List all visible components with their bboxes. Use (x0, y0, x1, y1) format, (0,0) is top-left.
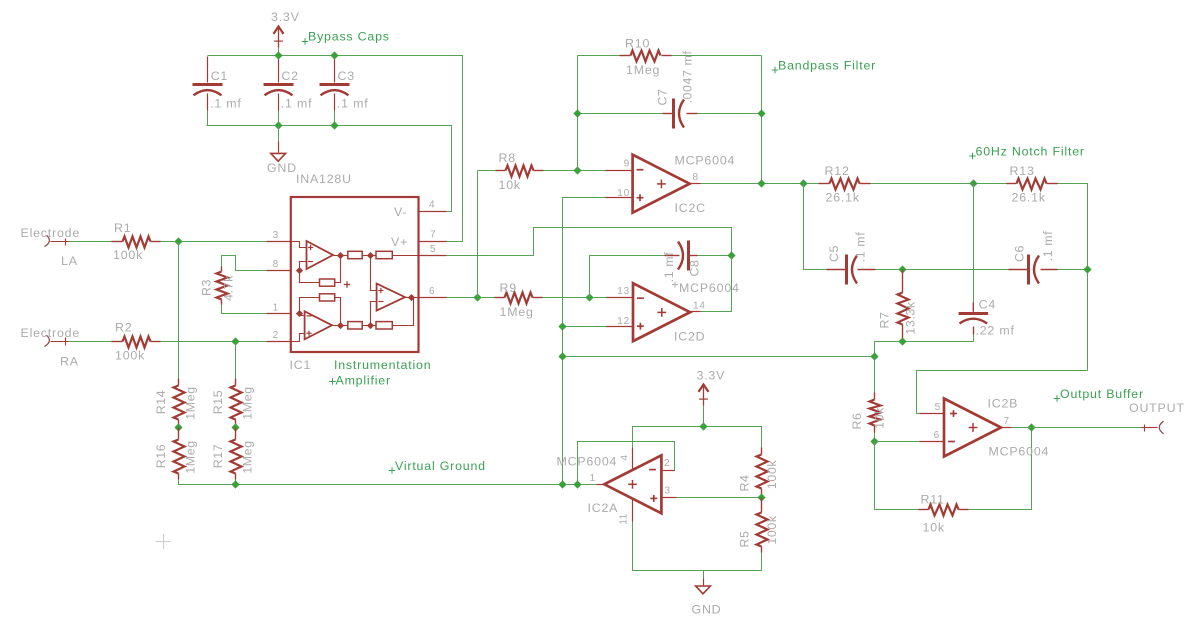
wire (698, 113, 762, 115)
wire (178, 242, 180, 379)
junction (573, 109, 581, 117)
label 60Hz Notch Filter (969, 145, 1085, 160)
resistor R11 (919, 493, 969, 535)
svg-text:OUTPUT: OUTPUT (1129, 401, 1185, 415)
wire IC2A power rail top (633, 427, 762, 448)
wire IC1 internal to out- (371, 302, 377, 326)
svg-text:5: 5 (935, 402, 941, 413)
wire (161, 241, 267, 243)
wire IC1 internal pin2 to B+ (292, 334, 305, 342)
ground GND (IC2A) (692, 571, 722, 617)
svg-text:C5: C5 (827, 245, 841, 262)
junction (573, 480, 581, 488)
wire (69, 241, 112, 243)
op-amp IC1 input buffer B (305, 311, 332, 339)
wire pin5 net (447, 228, 732, 256)
svg-text:MCP6004: MCP6004 (557, 455, 618, 469)
wire (672, 55, 762, 57)
wire (1058, 184, 1088, 371)
node pin8 junction (296, 267, 303, 274)
power 3.3V supply (IC2A) (697, 369, 726, 427)
junction (473, 293, 481, 301)
wire IC1 internal Rg-bottom link (335, 298, 341, 326)
junction (757, 493, 765, 501)
junction (969, 179, 977, 187)
electrode RA terminal (21, 326, 81, 369)
svg-text:R10: R10 (625, 37, 650, 51)
wire (478, 170, 496, 172)
resistor R9 (495, 281, 543, 319)
resistor R1 (112, 221, 161, 262)
svg-text:V+: V+ (391, 235, 408, 249)
capacitor C5 (827, 232, 876, 285)
pin 6 IC1 (419, 286, 447, 298)
wire C7 row (578, 113, 663, 115)
label Bandpass Filter (772, 59, 876, 74)
svg-text:10k: 10k (923, 521, 945, 535)
junction (799, 179, 807, 187)
svg-text:R4: R4 (738, 474, 752, 491)
wire IC2D output feedback (701, 256, 732, 312)
svg-text:C8: C8 (688, 259, 702, 276)
resistor IC1 internal bottom R2 (376, 322, 392, 329)
svg-text:1Meg: 1Meg (626, 63, 660, 77)
wire C8 row (590, 256, 665, 298)
wire pin12 to virtual ground rail (563, 326, 607, 328)
svg-text:26.1k: 26.1k (826, 191, 860, 205)
svg-text:R13: R13 (1010, 164, 1035, 178)
svg-text:1Meg: 1Meg (241, 386, 255, 419)
wire (969, 428, 1032, 510)
svg-text:10k: 10k (873, 407, 887, 429)
svg-text:IC2C: IC2C (675, 201, 706, 215)
svg-text:100k: 100k (765, 460, 779, 489)
junction (757, 109, 765, 117)
resistor R7 (878, 270, 918, 342)
terminal OUTPUT (1129, 401, 1185, 434)
svg-text:C2: C2 (281, 69, 298, 83)
junction (558, 322, 566, 330)
wire (179, 480, 597, 485)
node pin1 junction (296, 310, 303, 317)
pin 11 IC2A power (619, 499, 633, 525)
junction (274, 121, 282, 129)
pin 7 IC1 V+ (391, 230, 447, 250)
resistor R5 (738, 498, 780, 553)
power 3.3V supply (bypass) (271, 10, 300, 48)
svg-text:Bandpass Filter: Bandpass Filter (778, 59, 876, 73)
svg-text:R3: R3 (200, 279, 214, 296)
resistor IC1 internal bottom R1 (348, 322, 362, 329)
pin 4 IC2A power (620, 448, 633, 470)
svg-text:Electrode: Electrode (21, 326, 81, 340)
node bottom row junction a (337, 322, 344, 329)
wire R10 feedback right drop (761, 56, 763, 184)
cursor crosshair (156, 534, 171, 549)
svg-text:V-: V- (394, 205, 407, 219)
svg-text:.1 mf: .1 mf (281, 97, 313, 111)
node top row junction a (337, 252, 344, 259)
svg-text:13: 13 (617, 286, 630, 297)
label Output Buffer (1054, 387, 1144, 402)
svg-text:5: 5 (430, 244, 436, 255)
pin 2 IC2A (662, 458, 675, 471)
junction (558, 480, 566, 488)
svg-text:RA: RA (60, 355, 79, 369)
wire IC1 internal Rg-top link (335, 256, 341, 283)
svg-text:.1 mf: .1 mf (210, 97, 242, 111)
junction node RA (231, 337, 239, 345)
resistor R16 (154, 428, 198, 480)
svg-text:.22 mf: .22 mf (976, 324, 1015, 338)
pin 9 IC2C (606, 159, 633, 171)
resistor IC1 internal top R2 (376, 251, 392, 258)
node bottom row junction b (367, 322, 374, 329)
pin 2 IC1 (267, 330, 292, 342)
svg-text:9: 9 (624, 159, 630, 170)
pin 14 IC2D output (691, 301, 706, 312)
svg-text:3.3V: 3.3V (697, 369, 726, 383)
svg-text:R6: R6 (850, 412, 864, 429)
wire 3.3V top rail (208, 56, 463, 242)
svg-text:6: 6 (934, 430, 940, 441)
wire IC2A power rail bottom (633, 522, 762, 571)
resistor R15 (211, 379, 255, 428)
svg-text:C3: C3 (338, 69, 355, 83)
svg-text:C1: C1 (211, 69, 228, 83)
node top row junction b (367, 252, 374, 259)
wire (222, 305, 267, 314)
wire notch output to IC2B pin5 (917, 371, 1088, 414)
capacitor C1 (193, 57, 242, 126)
capacitor C7 (656, 50, 698, 128)
wire (69, 341, 112, 343)
pin 6 IC2B (920, 430, 945, 442)
svg-text:R7: R7 (878, 311, 892, 328)
wire IC1 internal pin1 node (300, 298, 320, 316)
junction (870, 437, 878, 445)
junction (558, 352, 566, 360)
svg-text:3: 3 (273, 230, 279, 241)
svg-text:C7: C7 (656, 88, 670, 105)
op-amp U IC2A MCP6004 (557, 455, 662, 516)
wire (161, 341, 267, 343)
svg-text:IC2B: IC2B (988, 397, 1019, 411)
resistor R4 (738, 448, 780, 498)
junction (727, 251, 735, 259)
svg-text:Output Buffer: Output Buffer (1060, 387, 1144, 401)
pin 8 IC1 (267, 259, 292, 271)
junction (330, 51, 338, 59)
svg-text:11: 11 (619, 513, 630, 524)
svg-text:.1 mf: .1 mf (1041, 231, 1055, 262)
junction node LA (174, 237, 182, 245)
wire C5 row left drop (804, 184, 827, 270)
svg-text:1Meg: 1Meg (241, 440, 255, 473)
wire GND bottom rail (207, 126, 452, 212)
svg-text:13.3k: 13.3k (904, 301, 918, 335)
junction (898, 337, 906, 345)
svg-text:R16: R16 (154, 444, 168, 469)
capacitor C6 (1009, 231, 1058, 285)
svg-text:IC2A: IC2A (588, 501, 619, 515)
svg-text:1Meg: 1Meg (184, 386, 198, 419)
svg-text:C4: C4 (979, 298, 996, 312)
svg-text:Electrode: Electrode (21, 226, 81, 240)
wire IC1 internal top row (334, 255, 419, 257)
svg-text:6: 6 (429, 286, 435, 297)
wire IC1 internal to out+ (371, 256, 377, 291)
svg-text:R9: R9 (500, 281, 517, 295)
pin 12 IC2D (607, 316, 634, 327)
pin 5 IC2B (920, 402, 945, 414)
ground GND (bypass) (267, 126, 297, 176)
op-amp U IC1 INA128U box (291, 197, 419, 352)
wire IC1 internal pin3 to A+ (292, 242, 307, 248)
svg-text:.1 mf: .1 mf (662, 252, 676, 283)
resistor R14 (154, 379, 198, 428)
svg-text:10k: 10k (499, 178, 521, 192)
junction (1027, 423, 1035, 431)
junction (231, 480, 239, 488)
svg-text:14: 14 (693, 301, 706, 312)
wire pin10 to virtual ground rail (563, 198, 606, 485)
wire (544, 170, 606, 172)
svg-text:10: 10 (617, 188, 630, 199)
pin 3 IC1 (267, 230, 292, 242)
svg-text:100k: 100k (115, 349, 145, 363)
label Virtual Ground (389, 459, 486, 474)
resistor R12 (819, 164, 871, 205)
label Bypass Caps (302, 30, 390, 45)
pin 8 IC2C output (690, 172, 701, 184)
resistor R8 (496, 151, 544, 192)
svg-text:2: 2 (273, 330, 279, 341)
wire (1058, 269, 1088, 271)
junction (231, 423, 239, 431)
svg-text:C6: C6 (1013, 245, 1027, 262)
electrode LA terminal (21, 226, 81, 268)
resistor IC1 internal Rg top (320, 279, 335, 286)
svg-text:4: 4 (620, 454, 631, 460)
svg-text:MCP6004: MCP6004 (989, 445, 1050, 459)
wire (235, 480, 237, 485)
junction (898, 265, 906, 273)
svg-text:7: 7 (1004, 416, 1010, 427)
svg-text:Virtual Ground: Virtual Ground (395, 459, 486, 473)
svg-text:Instrumentation: Instrumentation (334, 358, 431, 372)
resistor R3 (200, 267, 236, 305)
svg-text:60Hz Notch Filter: 60Hz Notch Filter (976, 145, 1085, 159)
op-amp IC1 output stage (377, 284, 405, 311)
pin 5 IC1 (419, 244, 447, 256)
svg-text:4.7k: 4.7k (222, 275, 236, 301)
svg-text:R14: R14 (154, 390, 168, 415)
op-amp IC1 input buffer A (307, 241, 334, 269)
wire R11 feedback loop (875, 442, 919, 510)
op-amp U IC2B MCP6004 (944, 397, 1049, 459)
svg-text:2: 2 (664, 458, 670, 469)
svg-text:R5: R5 (738, 530, 752, 547)
resistor IC1 internal top R1 (348, 251, 362, 258)
wire R10 feedback left drop (577, 56, 579, 171)
wire output net (1012, 427, 1142, 429)
svg-text:1Meg: 1Meg (500, 305, 534, 319)
wire (222, 256, 267, 271)
svg-text:Amplifier: Amplifier (336, 374, 391, 388)
svg-text:R2: R2 (115, 321, 132, 335)
wire (876, 269, 1009, 271)
resistor R2 (112, 321, 161, 363)
resistor R10 (620, 37, 672, 78)
wire IC2A pin2 feedback loop (578, 442, 675, 485)
svg-text:.1 mf: .1 mf (337, 97, 369, 111)
capacitor C4 (959, 184, 1015, 342)
wire (278, 48, 280, 56)
symbol internal plus (344, 284, 350, 286)
svg-text:IC1: IC1 (290, 358, 312, 372)
svg-text:R1: R1 (114, 221, 131, 235)
label Instrumentation Amplifier (329, 358, 431, 388)
svg-text:R8: R8 (499, 151, 516, 165)
wire (698, 255, 732, 257)
svg-text:3.3V: 3.3V (271, 10, 300, 24)
node output junction (408, 294, 415, 301)
wire to IC2B pin6 (875, 441, 920, 443)
svg-text:12: 12 (617, 316, 630, 327)
wire IC1 internal output (406, 297, 419, 299)
wire (235, 342, 237, 379)
junction (573, 166, 581, 174)
svg-text:IC2D: IC2D (674, 330, 705, 344)
wire IC1 internal pin8 node (300, 262, 320, 283)
svg-text:INA128U: INA128U (296, 172, 352, 186)
svg-text:3: 3 (665, 486, 671, 497)
pin 10 IC2C (606, 188, 633, 199)
pin 13 IC2D (607, 286, 634, 298)
wire IC2A pin3 net (677, 497, 762, 499)
pin 1 IC1 (267, 303, 292, 314)
svg-text:Bypass Caps: Bypass Caps (308, 30, 390, 44)
junction (699, 422, 707, 430)
junction (585, 293, 593, 301)
svg-text:R12: R12 (825, 164, 850, 178)
svg-text:26.1k: 26.1k (1012, 191, 1046, 205)
svg-text:8: 8 (693, 172, 699, 183)
junction (757, 179, 765, 187)
op-amp U IC2C MCP6004 (633, 154, 736, 216)
junction (870, 352, 878, 360)
svg-text:7: 7 (430, 230, 436, 241)
wire pin6 net (447, 297, 495, 299)
svg-text:LA: LA (61, 254, 78, 268)
svg-text:.0047 mf: .0047 mf (681, 50, 695, 103)
svg-text:GND: GND (692, 603, 722, 617)
svg-text:100k: 100k (765, 515, 779, 544)
wire (578, 55, 620, 57)
wire (871, 183, 1007, 185)
op-amp U IC2D MCP6004 (633, 281, 740, 344)
svg-text:MCP6004: MCP6004 (675, 154, 736, 168)
junction (330, 121, 338, 129)
svg-text:GND: GND (267, 161, 297, 175)
svg-text:R11: R11 (921, 493, 945, 507)
capacitor C3 (320, 57, 369, 126)
svg-text:100k: 100k (113, 248, 143, 262)
resistor R13 (1007, 164, 1058, 205)
wire IC1 internal bottom row (333, 298, 414, 326)
pin 7 IC2B output (1002, 416, 1012, 428)
svg-text:1: 1 (273, 303, 279, 314)
svg-text:.1 mf: .1 mf (854, 232, 868, 263)
wire IC2C output (701, 183, 819, 185)
capacitor C8 (662, 241, 702, 283)
svg-text:R15: R15 (211, 390, 225, 415)
svg-text:8: 8 (273, 259, 279, 270)
svg-text:MCP6004: MCP6004 (679, 281, 740, 295)
junction (1083, 265, 1091, 273)
wire C4 bottom row (875, 342, 974, 357)
wire R8 feedback drop (477, 171, 479, 298)
svg-text:1Meg: 1Meg (184, 440, 198, 473)
pin 4 IC1 V- (394, 200, 447, 220)
svg-text:1: 1 (590, 473, 596, 484)
pin 1 IC2A output (590, 473, 605, 485)
svg-text:4: 4 (429, 200, 435, 211)
wire (543, 297, 607, 299)
resistor R6 (850, 357, 887, 442)
resistor IC1 internal Rg bottom (320, 294, 335, 301)
wire virtual ground to R6 (563, 356, 875, 358)
pin 3 IC2A (662, 486, 677, 498)
capacitor C2 (264, 57, 313, 126)
svg-text:R17: R17 (211, 444, 225, 469)
junction (274, 51, 282, 59)
resistor R17 (211, 428, 255, 480)
junction (174, 423, 182, 431)
